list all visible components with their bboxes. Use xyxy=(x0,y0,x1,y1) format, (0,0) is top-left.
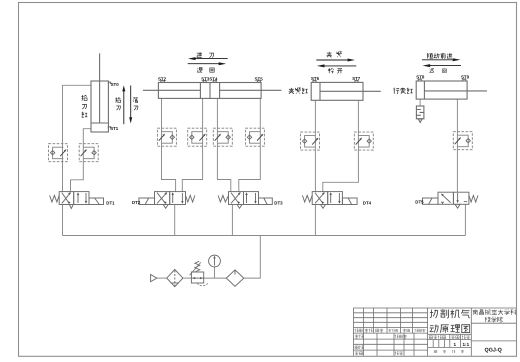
svg-text:ST5: ST5 xyxy=(255,76,264,81)
wire: regulator to lubricator with gauge tee xyxy=(204,277,227,279)
wire: feed cyl port2 through box2 to DT2 right port xyxy=(182,98,202,191)
label 返 回 (return) xyxy=(430,69,447,73)
sensor tick ST0 xyxy=(108,82,110,84)
rod xyxy=(320,90,381,92)
flow control box B (lift cyl bottom line) xyxy=(79,144,98,162)
pressure regulator xyxy=(190,261,208,285)
label 随动前进 (follow forward) xyxy=(427,53,452,59)
tiny title block texts xyxy=(355,329,470,355)
valve DT4 (4/2 solenoid, spring left) xyxy=(302,192,357,209)
piston xyxy=(423,81,425,99)
arrow left 返回 (return) xyxy=(422,64,461,67)
flow control box C xyxy=(301,132,320,150)
sensor ticks ST2 ST3 ST4 ST5 xyxy=(161,81,261,83)
cylinder body xyxy=(158,83,261,99)
valve DT5 (3/2 solenoid, spring right) xyxy=(423,192,479,208)
header 标记 处数 分区 更改文件号 签名 年月日 xyxy=(355,329,359,333)
left grid verticals (signature area) xyxy=(364,333,415,356)
lubricator xyxy=(226,270,244,286)
svg-text:ST9: ST9 xyxy=(461,75,470,80)
flow control box E xyxy=(453,132,472,150)
school column rows xyxy=(471,323,516,341)
label 退 回 (retract) xyxy=(197,68,214,73)
wire: DT2 P port to bus xyxy=(174,205,176,236)
arrow right 退回 (retract) xyxy=(188,62,227,65)
svg-text:ST6: ST6 xyxy=(311,76,320,81)
wire: clamp cyl right port through box D, jog to DT4 right port xyxy=(323,100,359,192)
wire: travel cyl right port through box E to DT5 top port xyxy=(456,99,458,192)
rod xyxy=(424,90,487,92)
valve DT1 (4/2 solenoid, spring left) xyxy=(50,192,104,209)
title column rows xyxy=(428,334,472,347)
svg-text:ST1: ST1 xyxy=(110,126,119,131)
label 夹紧缸 (clamp cylinder) xyxy=(289,88,308,94)
工艺 xyxy=(355,351,359,355)
wire: lift cyl bottom port to box B, jog to DT1 right port xyxy=(71,129,92,192)
flow control box 1 xyxy=(157,128,176,146)
wire: lift cyl top port to box A to valve DT1 left port xyxy=(63,85,92,191)
pressure gauge xyxy=(209,255,221,267)
wire: DT5 P port to bus xyxy=(464,204,466,235)
sensor tick ST1 xyxy=(108,127,110,129)
wire: feed cyl port4 through box4 to DT3 right port xyxy=(239,98,260,191)
svg-text:DT2: DT2 xyxy=(132,200,141,205)
sensor ticks ST8 ST9 xyxy=(418,79,465,81)
piston line xyxy=(91,122,108,124)
wire: gauge stem xyxy=(214,267,216,278)
svg-text:QGJ-Q: QGJ-Q xyxy=(485,347,502,353)
school name 南昌航空大学科技学院 xyxy=(473,309,516,322)
wire: DT1 P port down to bus xyxy=(62,205,64,236)
through rod xyxy=(143,89,281,91)
arrow right 随动前进 (follow forward) xyxy=(422,58,461,61)
svg-text:1:1: 1:1 xyxy=(463,342,470,347)
阶段标记 xyxy=(429,336,432,339)
label 抬刀 (lift), vertical xyxy=(115,97,120,110)
sensor ticks ST6 ST7 xyxy=(313,81,358,83)
filter with water separator xyxy=(167,270,183,287)
标准化 xyxy=(395,335,399,339)
审核 xyxy=(355,346,358,349)
设计 xyxy=(355,335,359,339)
svg-text:ST2: ST2 xyxy=(158,76,167,81)
wire: air supply bus xyxy=(63,235,466,237)
flow control box 2 xyxy=(188,128,207,146)
共 张 第 张 xyxy=(434,350,437,352)
flow control box D xyxy=(354,132,373,150)
wire: clamp cyl left port through box C to DT4 left port xyxy=(314,100,316,192)
left grid verticals (revision area) xyxy=(364,308,413,333)
piston rod xyxy=(99,53,101,123)
label 行走缸 (travel cylinder) xyxy=(393,88,412,94)
svg-text:ST8: ST8 xyxy=(416,75,425,80)
air intake triangle xyxy=(151,275,157,282)
wire: feed cyl port3 through box3 to DT3 left port xyxy=(217,98,230,191)
svg-text:1: 1 xyxy=(454,342,457,347)
svg-text:DT4: DT4 xyxy=(363,201,372,206)
svg-text:DT3: DT3 xyxy=(274,200,283,205)
wire: DT3 P port to bus xyxy=(231,205,233,236)
piston block xyxy=(200,83,219,99)
silencer-throttle under travel cylinder xyxy=(416,106,424,122)
批准 xyxy=(395,351,399,355)
flow control box 3 xyxy=(213,128,232,146)
比例 xyxy=(462,335,466,339)
wire: filter to regulator xyxy=(183,277,192,279)
label 抬刀缸 (lift cylinder), vertical xyxy=(81,95,87,117)
piston xyxy=(319,82,321,100)
valve DT3 (4/2 solenoid, spring left) xyxy=(218,192,272,209)
wire: intake to filter xyxy=(157,277,167,279)
wire: feed cyl port1 through box1 to DT2 left port xyxy=(162,98,176,191)
数量 xyxy=(451,335,455,339)
arrow right 夹紧 (clamp) xyxy=(316,59,355,62)
svg-text:ST0: ST0 xyxy=(111,82,120,87)
label 进 刀 (feed) xyxy=(197,52,214,57)
valve DT2 (4/2 solenoid, spring right) xyxy=(139,192,195,209)
svg-text:DT5: DT5 xyxy=(415,200,424,205)
label 夹 紧 (clamp) xyxy=(327,52,342,58)
cylinder body xyxy=(311,82,363,100)
wire: DT4 P port to bus xyxy=(314,205,316,236)
label 松 开 (release) xyxy=(328,68,342,73)
wire: travel cyl left port to silencer xyxy=(419,99,421,106)
arrow up 抬刀 (lift) xyxy=(122,85,125,124)
arrow left 进刀 (feed) xyxy=(188,57,228,60)
arrow down 落刀 (drop) xyxy=(129,86,132,124)
svg-text:ST3ST4: ST3ST4 xyxy=(201,76,218,81)
left grid horizontals xyxy=(354,313,428,350)
drawing title 切割机气动原理图 xyxy=(430,309,470,332)
cylinder body xyxy=(91,81,108,132)
wire: feed riser from lubricator to bus xyxy=(244,236,260,279)
flow control box 4 xyxy=(245,128,264,146)
flow control box A (lift cyl top line) xyxy=(49,144,68,162)
cylinder body xyxy=(416,81,467,99)
title block outline xyxy=(354,308,517,356)
arrow left 松开 (release) xyxy=(317,64,356,67)
svg-text:ST7: ST7 xyxy=(352,76,361,81)
svg-text:DT1: DT1 xyxy=(106,200,115,205)
label 落刀 (drop), vertical xyxy=(133,97,138,110)
